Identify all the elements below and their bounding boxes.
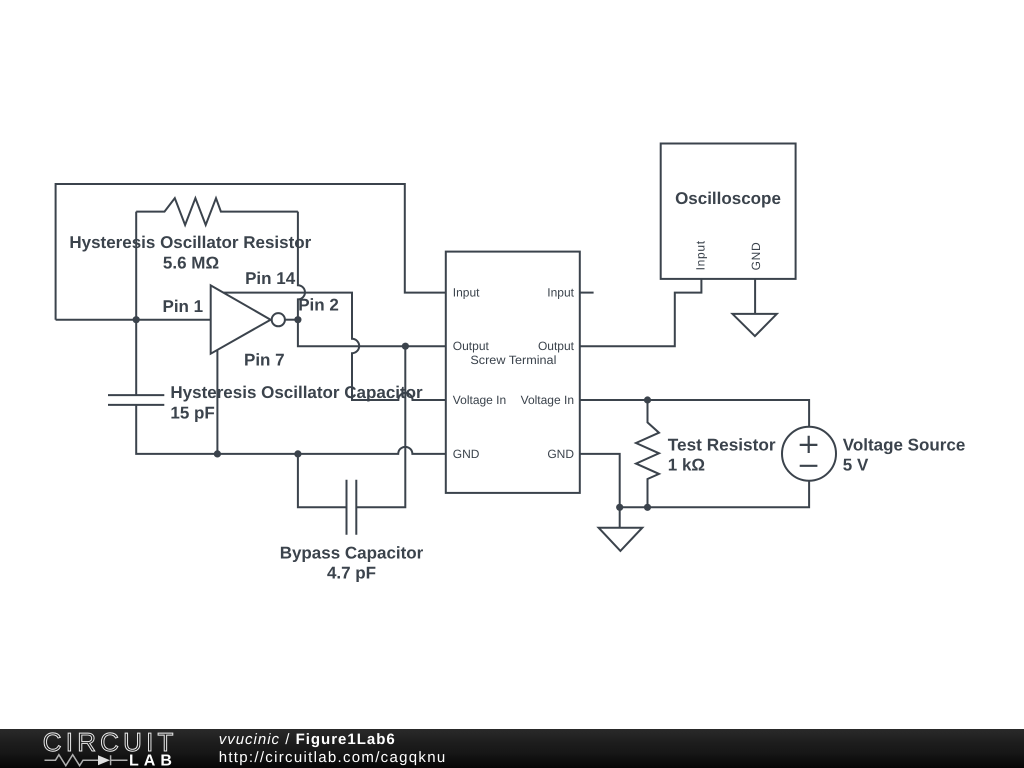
svg-text:Pin 14: Pin 14 [245,269,296,288]
svg-text:Bypass Capacitor: Bypass Capacitor [280,543,424,562]
svg-text:Input: Input [453,286,480,300]
svg-text:Pin 7: Pin 7 [244,351,285,370]
svg-text:Test Resistor: Test Resistor [668,435,776,454]
svg-text:GND: GND [749,242,763,271]
svg-text:4.7 pF: 4.7 pF [327,563,376,582]
svg-text:Input: Input [547,286,574,300]
svg-text:Voltage Source: Voltage Source [843,435,966,454]
svg-text:GND: GND [547,447,574,461]
svg-text:5.6 MΩ: 5.6 MΩ [163,253,219,272]
svg-text:Voltage In: Voltage In [521,393,574,407]
svg-text:Oscilloscope: Oscilloscope [675,189,781,208]
svg-text:vvucinic / Figure1Lab6: vvucinic / Figure1Lab6 [219,731,396,748]
svg-text:Screw Terminal: Screw Terminal [470,353,556,367]
svg-text:GND: GND [453,447,480,461]
svg-text:15 pF: 15 pF [170,403,214,422]
svg-text:Pin 1: Pin 1 [163,297,204,316]
svg-text:http://circuitlab.com/cagqknu: http://circuitlab.com/cagqknu [219,749,447,766]
svg-text:Hysteresis Oscillator Capacito: Hysteresis Oscillator Capacitor [170,383,423,402]
svg-text:5 V: 5 V [843,456,869,475]
svg-text:Pin 2: Pin 2 [298,296,339,315]
svg-text:Output: Output [538,339,575,353]
svg-text:LAB: LAB [129,753,177,768]
svg-text:Voltage In: Voltage In [453,393,506,407]
svg-text:Output: Output [453,339,490,353]
svg-text:1 kΩ: 1 kΩ [668,456,705,475]
svg-text:Hysteresis Oscillator Resistor: Hysteresis Oscillator Resistor [69,233,311,252]
svg-text:Input: Input [694,240,708,270]
